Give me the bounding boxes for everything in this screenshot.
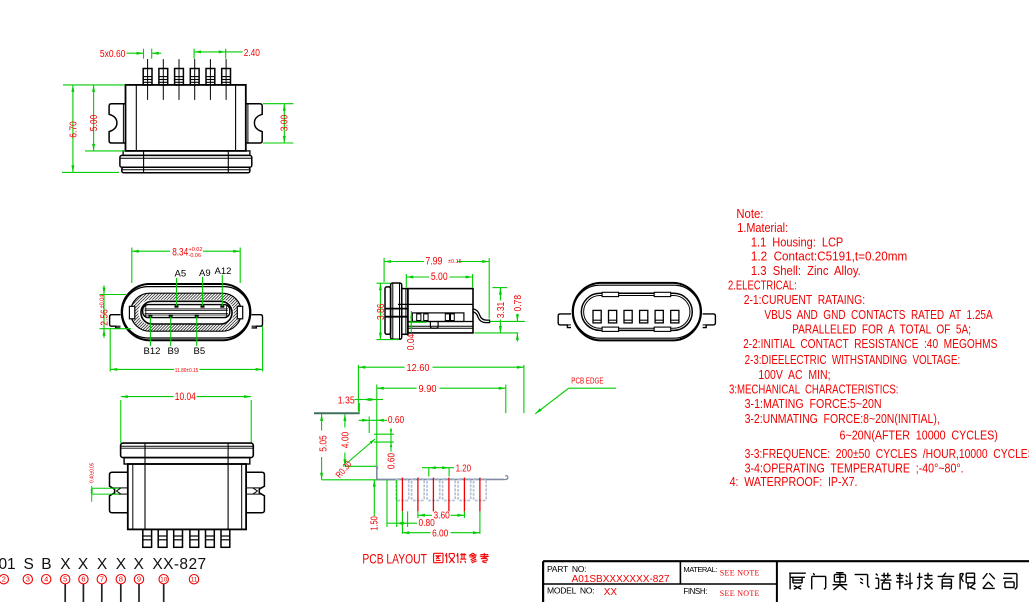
dim 5x0.60 lines	[127, 52, 144, 54]
svg-text:2-1:CURUENT RATAING:: 2-1:CURUENT RATAING:	[744, 292, 865, 307]
dim 4.00	[344, 414, 346, 428]
svg-text:1.2 Contact:C5191,t=0.20mm: 1.2 Contact:C5191,t=0.20mm	[751, 249, 907, 264]
svg-text:Note:: Note:	[736, 206, 763, 221]
svg-text:100V AC MIN;: 100V AC MIN;	[758, 367, 830, 382]
svg-text:B12: B12	[144, 346, 161, 357]
company name	[789, 572, 806, 574]
svg-text:7: 7	[100, 575, 104, 584]
svg-text:3-2:UNMATING FORCE:8~20N(INITI: 3-2:UNMATING FORCE:8~20N(INITIAL),	[745, 411, 940, 426]
view2 contact dimples bottom	[149, 315, 152, 317]
dim 2.40 lines	[194, 51, 242, 53]
svg-text:A9: A9	[199, 268, 211, 279]
svg-text:8.34: 8.34	[172, 246, 188, 258]
dim 0.80	[386, 480, 388, 527]
view1 pin 4	[190, 69, 199, 85]
view4 outer stadium inner line	[573, 285, 700, 338]
view5 dim 10.04	[120, 400, 122, 443]
view1 body inner left line	[135, 85, 137, 151]
svg-text:B: B	[41, 556, 52, 573]
view2 leader B12	[149, 316, 151, 346]
view5 second band	[124, 458, 250, 464]
view1 body outline	[126, 85, 246, 151]
view5 pin 1	[143, 529, 152, 547]
view4 pin hole 6	[671, 310, 679, 323]
svg-text:1.20: 1.20	[456, 462, 472, 474]
svg-text:VBUS AND GND CONTACTS RATED AT: VBUS AND GND CONTACTS RATED AT 1.25A	[764, 307, 993, 322]
view3 front cap	[385, 287, 391, 334]
svg-text:3-1:MATING FORCE:5~20N: 3-1:MATING FORCE:5~20N	[745, 396, 882, 411]
view5 pin 6	[221, 529, 230, 547]
dim 5.05	[321, 414, 323, 431]
svg-text:9.90: 9.90	[419, 383, 437, 395]
view2 left latch slot	[129, 306, 134, 319]
pcb pad 1	[396, 479, 409, 501]
dim 9.90	[376, 385, 378, 480]
view1 flange main band	[120, 155, 252, 167]
view1 pin 6	[222, 69, 231, 85]
svg-text:5x0.60: 5x0.60	[100, 49, 126, 60]
view2 right latch slot	[237, 306, 242, 319]
view1 flange vertical seam left	[143, 151, 145, 173]
svg-text:10.04: 10.04	[175, 391, 196, 403]
svg-text:5.00: 5.00	[88, 115, 100, 132]
svg-text:2-2:INITIAL CONTACT RESISTANCE: 2-2:INITIAL CONTACT RESISTANCE :40 MEGOH…	[743, 336, 998, 351]
view4 right tab	[703, 314, 716, 328]
view5 pin 2	[158, 529, 167, 547]
svg-text:6~20N(AFTER 10000 CYCLES): 6~20N(AFTER 10000 CYCLES)	[840, 428, 998, 443]
svg-text:3:MECHANICAL CHARACTERISTICS:: 3:MECHANICAL CHARACTERISTICS:	[729, 382, 898, 397]
view1 body inner right line	[235, 85, 237, 151]
dim 0.04	[410, 311, 412, 333]
svg-text:B9: B9	[168, 346, 180, 357]
svg-text:9: 9	[137, 575, 141, 584]
dim 3.00	[263, 103, 294, 105]
svg-text:11.80±0.15: 11.80±0.15	[175, 368, 199, 374]
dim 5.00 side	[405, 274, 407, 288]
svg-text:2.ELECTRICAL:: 2.ELECTRICAL:	[728, 277, 797, 292]
svg-text:7.99: 7.99	[425, 255, 442, 267]
svg-text:A12: A12	[215, 266, 232, 277]
view2 leader A9	[202, 277, 204, 306]
svg-text:3.86: 3.86	[375, 303, 387, 320]
pcb pad 3	[427, 479, 440, 501]
view2 shell inner stadium	[122, 287, 249, 338]
svg-text:±0.15: ±0.15	[448, 259, 462, 265]
dim 7.99	[383, 258, 385, 282]
svg-text:1.1 Housing: LCP: 1.1 Housing: LCP	[751, 234, 843, 249]
view2 contact dimples top	[175, 306, 178, 308]
svg-text:3.00: 3.00	[279, 115, 291, 132]
svg-text:PARALLELED FOR A TOTAL OF 5A;: PARALLELED FOR A TOTAL OF 5A;	[792, 321, 971, 336]
dim 6.70	[63, 84, 125, 86]
view4 pin hole 1	[593, 310, 601, 323]
svg-text:X: X	[97, 556, 108, 573]
svg-text:SEE NOTE: SEE NOTE	[720, 569, 760, 578]
view2 leader A12	[221, 275, 223, 306]
svg-text:-0.06: -0.06	[189, 253, 202, 259]
ordering code circles	[0, 575, 8, 584]
view5 right ear	[246, 472, 264, 513]
dim 0.78	[490, 320, 525, 322]
svg-text:3.60: 3.60	[434, 510, 450, 522]
pcb pad 4	[443, 479, 456, 501]
view3 SMD lead	[473, 309, 490, 323]
dim 3.86	[377, 282, 391, 284]
view2 outer shell stadium	[122, 284, 251, 340]
dim 2.56	[100, 294, 127, 296]
view4 left tab	[558, 314, 571, 328]
svg-text:3.31: 3.31	[495, 302, 507, 319]
dim 11.80	[109, 328, 111, 372]
view1 flange bottom band	[122, 167, 250, 173]
view3 body	[408, 289, 473, 333]
svg-text:5: 5	[63, 575, 67, 584]
view2 hatched insulator ring	[131, 293, 242, 331]
svg-text:XX: XX	[604, 587, 618, 598]
svg-text:6.00: 6.00	[432, 527, 448, 539]
dim 6.00	[401, 511, 403, 533]
svg-text:B5: B5	[194, 346, 206, 357]
view2 leader A5	[176, 278, 178, 306]
pcb pad 6	[474, 479, 487, 501]
dim 3.60	[417, 511, 419, 518]
svg-text:A5: A5	[175, 268, 187, 279]
svg-text:MATERAL:: MATERAL:	[683, 565, 717, 574]
view1 pin 1	[143, 69, 152, 85]
view4 inner stadium	[581, 293, 692, 330]
view4 top notches	[602, 292, 619, 296]
ordering code leader lines	[64, 584, 66, 602]
svg-text:3-3:FREQUENCE: 200±50 CYCLES /: 3-3:FREQUENCE: 200±50 CYCLES /HOUR,10000…	[745, 446, 1029, 461]
svg-text:MODEL NO:: MODEL NO:	[547, 585, 594, 595]
svg-text:2: 2	[2, 575, 6, 584]
view4 stadium transition ticks	[592, 283, 594, 286]
view3 bottom lines	[408, 321, 473, 323]
svg-text:X: X	[116, 556, 127, 573]
view4 bottom notches	[602, 327, 619, 331]
view1 pin 2	[159, 69, 168, 85]
view2 tongue	[143, 305, 230, 318]
view5 top flange	[121, 443, 254, 458]
view5 pin 3	[174, 529, 183, 547]
pcb edge dark line	[314, 412, 360, 414]
view4 pin hole 4	[640, 310, 648, 323]
svg-text:6: 6	[81, 575, 85, 584]
view4 pin hole 2	[609, 310, 617, 323]
svg-text:SEE NOTE: SEE NOTE	[720, 589, 760, 598]
view1 right ear	[246, 104, 262, 143]
shell overlay on pcb	[375, 466, 378, 469]
svg-text:8: 8	[119, 575, 123, 584]
view5 pin 5	[206, 529, 215, 547]
dim R0.30	[347, 439, 375, 463]
svg-text:0.60: 0.60	[388, 414, 404, 426]
view5 pin 4	[190, 529, 199, 547]
pad centerlines red	[401, 478, 403, 512]
svg-text:6.70: 6.70	[67, 121, 79, 138]
pcb pad 2	[412, 479, 425, 501]
view2 right tab	[252, 315, 263, 328]
dim 5.00	[93, 85, 95, 151]
svg-text:3: 3	[26, 575, 30, 584]
svg-text:4.00: 4.00	[339, 432, 351, 449]
svg-text:A01SBXXXXXXX-827: A01SBXXXXXXX-827	[572, 574, 670, 585]
view4 outer stadium	[573, 283, 701, 341]
svg-text:X: X	[78, 556, 89, 573]
view5 left ear	[110, 472, 128, 513]
svg-text:4: 4	[44, 575, 48, 584]
view2 left tab	[110, 315, 121, 328]
view2 leader B9	[170, 316, 172, 346]
view5 inner lines	[144, 443, 146, 529]
svg-text:10: 10	[160, 577, 167, 584]
title block borders	[543, 560, 1029, 562]
svg-text:FINSH:: FINSH:	[683, 587, 707, 596]
svg-text:2.40: 2.40	[244, 48, 261, 59]
svg-text:1.Material:: 1.Material:	[737, 220, 788, 235]
svg-text:PART NO:: PART NO:	[547, 564, 586, 574]
svg-text:2.56: 2.56	[98, 309, 110, 326]
svg-text:5.00: 5.00	[431, 271, 448, 283]
svg-text:1.3 Shell: Zinc Alloy.: 1.3 Shell: Zinc Alloy.	[751, 263, 861, 278]
svg-text:2-3:DIEELECTRIC WITHSTANDING V: 2-3:DIEELECTRIC WITHSTANDING VOLTAGE:	[745, 352, 961, 367]
view1 left ear	[109, 104, 125, 143]
view1 flange vertical seam right	[227, 151, 229, 173]
svg-text:11: 11	[191, 577, 198, 584]
svg-text:X: X	[134, 556, 145, 573]
dim 1.20	[428, 468, 430, 477]
svg-text:PCB EDGE: PCB EDGE	[571, 376, 603, 386]
view1 flange step	[123, 151, 250, 156]
svg-text:1.50: 1.50	[369, 516, 381, 531]
svg-text:±0.04: ±0.04	[100, 295, 106, 309]
view3 bottom tab	[430, 322, 438, 329]
view2 leader B5	[196, 316, 198, 346]
svg-text:1.35: 1.35	[338, 394, 355, 406]
svg-text:0.04: 0.04	[406, 333, 417, 350]
dim 0.60 lower	[374, 433, 394, 435]
view5 main body	[128, 464, 246, 529]
svg-text:0.60: 0.60	[386, 453, 397, 470]
view1 pin 3	[175, 69, 184, 85]
view4 pin hole 5	[655, 310, 663, 323]
svg-text:XX-827: XX-827	[152, 556, 206, 573]
dim 8.34	[131, 248, 133, 284]
svg-text:S: S	[24, 556, 35, 573]
dim 1.50	[373, 480, 375, 516]
svg-text:PCB LAYOUT: PCB LAYOUT	[362, 551, 427, 567]
dim 3.31	[492, 287, 507, 289]
view4 pin hole 3	[624, 310, 632, 323]
pcb pad 5	[458, 479, 471, 501]
svg-text:1: 1	[7, 556, 16, 573]
svg-text:0.40±0.05: 0.40±0.05	[90, 463, 96, 483]
view4 inner stadium second line	[584, 296, 690, 329]
view1 pin 5	[206, 69, 215, 85]
svg-text:5.05: 5.05	[318, 435, 330, 452]
svg-text:0.78: 0.78	[512, 295, 524, 312]
dim 12.60	[357, 365, 359, 412]
svg-text:12.60: 12.60	[407, 362, 430, 374]
svg-text:X: X	[60, 556, 71, 573]
view3 contact support	[412, 313, 464, 322]
svg-text:4: WATERPROOF: IP-X7.: 4: WATERPROOF: IP-X7.	[730, 474, 858, 489]
